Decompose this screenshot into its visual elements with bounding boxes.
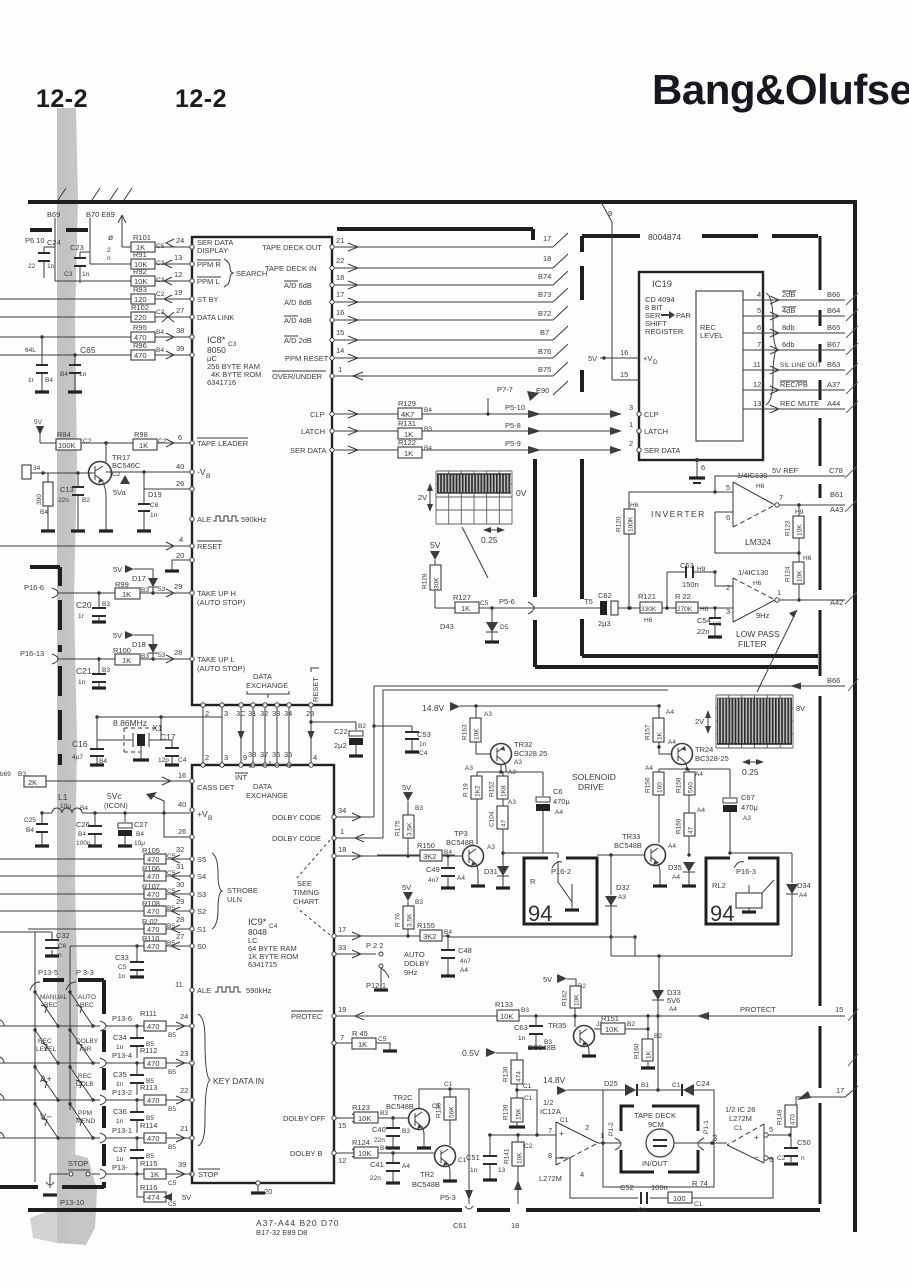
svg-text:H6: H6 [756,483,765,490]
svg-text:A4: A4 [799,892,807,899]
svg-text:330K: 330K [641,606,657,613]
output row 11 SIL LINE OUT to B63 [743,366,845,374]
svg-text:B4: B4 [156,347,164,354]
svg-text:1K: 1K [122,590,131,599]
down arrow pin9 wire [238,731,245,740]
svg-text:DATA: DATA [253,672,272,681]
svg-text:32: 32 [176,845,184,854]
svg-text:C23: C23 [70,243,84,252]
svg-text:5: 5 [757,306,761,315]
svg-text:40: 40 [178,800,186,809]
svg-text:C34: C34 [113,1033,127,1042]
svg-text:6341715: 6341715 [248,960,277,969]
pin 22 TAPE DECK IN [330,266,334,270]
svg-text:53: 53 [158,652,166,659]
svg-text:R141: R141 [504,1148,511,1164]
svg-text:EXCHANGE: EXCHANGE [246,681,288,690]
svg-text:C65: C65 [80,345,96,355]
wire TR32 collector tie [477,762,543,772]
wire opamp2 output to A42 [779,599,845,601]
svg-text:100: 100 [673,1194,686,1203]
svg-text:FILTER: FILTER [738,639,767,649]
capacitor C23 [79,252,81,283]
svg-text:B4: B4 [156,329,164,336]
svg-text:2: 2 [585,1123,589,1132]
svg-text:160: 160 [657,782,664,793]
wire pin38 [155,333,190,341]
transistor TR17 BC546C [89,462,112,485]
diode D31 [502,829,504,866]
svg-text:B3: B3 [102,601,110,608]
svg-text:P16-3: P16-3 [736,867,756,876]
svg-text:10K: 10K [517,1152,524,1164]
pin 26 [190,487,194,491]
svg-text:P5-10: P5-10 [505,403,525,412]
pin 28 S1 [190,927,194,931]
svg-text:B67: B67 [827,340,840,349]
wire dolby code pin1 riser [336,690,668,842]
capacitor C34 [135,1024,138,1027]
svg-text:3.5K: 3.5K [407,822,414,836]
keyboard module dashed border right [102,980,106,1188]
svg-text:A3: A3 [508,769,516,776]
svg-text:R133: R133 [495,1000,513,1009]
svg-text:SEARCH: SEARCH [236,269,267,278]
svg-text:TAKE UP L: TAKE UP L [197,655,235,664]
pin 39 [190,353,194,357]
wire B70 down [80,218,90,252]
ground bars [35,844,132,847]
svg-text:B17-32 E89 D8: B17-32 E89 D8 [256,1228,307,1237]
svg-text:6: 6 [757,323,761,332]
svg-text:C2: C2 [83,438,92,445]
relay RL2 box [706,858,778,924]
svg-text:C36: C36 [113,1107,127,1116]
svg-text:470: 470 [134,351,147,360]
strobe brace [212,853,222,929]
svg-text:470: 470 [147,1022,160,1031]
svg-text:A37-A44 B20 D70: A37-A44 B20 D70 [256,1218,340,1228]
svg-text:TR35: TR35 [548,1021,566,1030]
svg-text:A4: A4 [695,771,703,778]
svg-text:6db: 6db [782,340,795,349]
svg-text:220: 220 [134,313,147,322]
svg-text:C16: C16 [72,739,88,749]
wire R92 left to B69 [55,230,131,281]
wire D33 down to supply node [657,1016,659,1090]
svg-text:R136: R136 [503,1066,510,1082]
svg-text:1n: 1n [116,1118,124,1125]
svg-text:PROTECT: PROTECT [740,1005,776,1014]
wire crystal top rail [97,716,222,718]
svg-text:C1: C1 [672,1082,681,1089]
svg-text:1n: 1n [82,271,90,278]
diode D32 [609,853,612,856]
svg-text:EXCHANGE: EXCHANGE [246,791,288,800]
svg-text:8: 8 [548,1151,552,1160]
svg-text:C5: C5 [168,1201,177,1208]
svg-text:4n7: 4n7 [460,958,471,965]
wire DOLBY OFF row [336,1114,361,1122]
capacitor C26 100n [94,813,96,846]
svg-text:18: 18 [336,273,344,282]
svg-text:A4: A4 [555,809,563,816]
svg-text:150n: 150n [682,580,699,589]
svg-text:REGISTER: REGISTER [645,327,684,336]
svg-text:B3: B3 [415,899,423,906]
svg-text:6: 6 [726,513,730,522]
svg-text:23: 23 [306,709,314,718]
svg-text:P13-4: P13-4 [112,1051,132,1060]
svg-text:33: 33 [338,943,346,952]
edge hooks left [0,1020,4,1138]
svg-text:B: B [208,815,212,822]
svg-text:+: + [754,1132,759,1142]
bottom border [28,1208,820,1212]
svg-text:D43: D43 [440,622,454,631]
svg-text:P6 10: P6 10 [25,236,45,245]
wire E90 corner to CLP row [487,398,489,414]
capacitor C67 470u electrolytic [729,769,731,797]
svg-text:B2: B2 [82,497,90,504]
svg-text:B64: B64 [827,306,840,315]
wire pin24 [155,239,190,247]
svg-text:34: 34 [33,465,41,472]
svg-text:15K: 15K [516,1108,523,1120]
ground bars under caps [35,390,82,393]
opamps [616,466,846,692]
svg-text:R175: R175 [395,820,402,836]
svg-text:P13-: P13- [112,1163,128,1172]
svg-text:36: 36 [272,750,280,759]
svg-text:+V: +V [643,354,652,363]
IC9 body [192,765,334,1183]
svg-text:C2: C2 [524,1143,533,1150]
svg-text:10K: 10K [797,524,804,536]
transistor TR33 BC548B [645,845,666,866]
down arrow pin4 wire [308,731,315,740]
svg-text:38: 38 [176,326,184,335]
pin 40 -VB [190,470,194,474]
svg-text:C25: C25 [24,817,36,824]
row wire P13-4 [0,1062,100,1064]
pin 4 RESET [190,544,194,548]
svg-text:A4: A4 [668,739,676,746]
svg-text:C3: C3 [228,341,237,348]
svg-text:3: 3 [224,753,228,762]
svg-text:17: 17 [836,1086,844,1095]
matrix column B [69,951,71,1110]
svg-text:LM324: LM324 [745,537,771,547]
svg-text:3: 3 [712,1133,717,1144]
svg-text:1n: 1n [470,1167,478,1174]
svg-text:E90: E90 [536,386,549,395]
svg-text:A3: A3 [618,894,626,901]
svg-text:C2: C2 [156,291,165,298]
capacitor C13 22n [77,473,79,531]
tape deck thick box [621,1106,698,1172]
wire pin26 stub [144,488,190,490]
svg-text:INVERTER: INVERTER [651,509,706,519]
capacitor C50 [790,1135,792,1162]
motor symbol [646,1129,674,1157]
svg-text:8004874: 8004874 [648,232,681,242]
svg-text:D25: D25 [604,1079,618,1088]
svg-text:TP3: TP3 [454,829,468,838]
wire R98 to pin6 [157,439,190,447]
IC19 inner register box [696,291,743,441]
capacitor C19 1n [143,498,145,531]
svg-text:B2: B2 [627,1021,635,1028]
svg-text:P1-2: P1-2 [608,1122,615,1136]
svg-text:RESET: RESET [311,677,320,702]
5V REF row to C78 [715,476,845,492]
svg-text:P5-6: P5-6 [499,597,515,606]
svg-text:C1: C1 [523,1083,532,1090]
svg-text:390: 390 [36,494,43,505]
svg-text:−: − [559,1152,564,1162]
resistor 2K [24,776,46,787]
svg-text:C37: C37 [113,1145,127,1154]
svg-text:4: 4 [179,535,183,544]
svg-text:B1: B1 [641,1082,649,1089]
svg-text:C35: C35 [113,1070,127,1079]
svg-text:C49: C49 [426,865,440,874]
svg-text:A4: A4 [672,874,680,881]
svg-text:ALE: ALE [197,515,211,524]
5Va supply flag [120,475,130,484]
svg-text:R 19: R 19 [463,783,470,797]
svg-text:BC546C: BC546C [112,461,141,470]
pin 6 TAPE LEADER [190,441,194,445]
svg-text:1: 1 [629,420,633,429]
svg-text:C62: C62 [598,591,612,600]
svg-text:R115: R115 [140,1159,157,1168]
svg-text:R152: R152 [489,781,496,797]
svg-text:P7-7: P7-7 [497,385,513,394]
pin 12 DOLBY B [332,1151,336,1155]
svg-text:SER DATA: SER DATA [290,446,326,455]
resistor R149 470 vertical [785,1105,797,1127]
svg-text:C22: C22 [334,727,348,736]
pin 13 PPM R [190,262,194,266]
pin 27 DATA LINK [190,315,194,319]
svg-text:35: 35 [284,750,292,759]
svg-text:C24: C24 [696,1079,710,1088]
svg-text:R114: R114 [140,1121,157,1130]
svg-text:R: R [530,877,536,886]
svg-text:D: D [653,359,658,366]
ground bars row [41,529,151,532]
connector arrows into P13 [100,1021,106,1179]
svg-text:A3: A3 [487,844,495,851]
svg-text:AUTO: AUTO [404,950,425,959]
svg-text:−: − [754,1152,759,1162]
5V flag at R116 [163,1193,172,1201]
0.25 time marker [483,527,505,533]
pin 7 [332,1041,336,1045]
svg-text:STROBE: STROBE [227,886,258,895]
resistor R160 1K vertical [647,1016,649,1039]
svg-text:B3: B3 [141,653,149,660]
header [36,66,909,113]
svg-text:470: 470 [147,907,160,916]
topleft [0,210,190,392]
svg-text:C78: C78 [829,466,843,475]
svg-text:B5: B5 [168,1069,176,1076]
wire opamp1 output to A43 [779,504,845,506]
svg-text:470μ: 470μ [553,797,570,806]
pin 16 CASS DET [190,779,194,783]
svg-text:P13-1: P13-1 [112,1126,132,1135]
relay RL2 coil [736,893,762,908]
svg-text:1/4IC130: 1/4IC130 [738,568,768,577]
svg-text:94: 94 [528,901,552,926]
svg-text:R124: R124 [785,566,792,582]
svg-text:R96: R96 [133,341,147,350]
wire R136 node to audio rail [517,1090,537,1135]
svg-text:R84: R84 [57,430,71,439]
svg-text:13: 13 [174,253,182,262]
output row 7 6db to B67 [743,346,845,354]
svg-text:7: 7 [757,340,761,349]
svg-text:P 2 2: P 2 2 [366,941,383,950]
svg-text:DRIVE: DRIVE [578,782,604,792]
pin 39 STOP [190,1172,194,1176]
svg-text:S5: S5 [197,855,206,864]
pin 40 +VB [190,808,194,812]
svg-text:P16-6: P16-6 [24,583,44,592]
ground P13-10 [46,1174,54,1188]
svg-text:BC548B: BC548B [412,1180,440,1189]
svg-text:5V: 5V [34,419,43,426]
svg-text:C2: C2 [158,438,167,445]
svg-text:C32: C32 [56,931,70,940]
svg-text:37: 37 [260,750,268,759]
lowermid [336,783,845,1135]
svg-text:H9: H9 [795,509,804,516]
svg-text:P1-1: P1-1 [703,1120,710,1134]
svg-text:D18: D18 [132,640,146,649]
pin 16 A/D 4dB [330,318,334,322]
svg-text:5Vc: 5Vc [107,791,122,801]
svg-text:H6: H6 [803,555,812,562]
diode D33 zener [652,990,664,1000]
svg-text:0.25: 0.25 [742,767,759,777]
svg-text:C61: C61 [453,1221,467,1230]
svg-text:B75: B75 [538,365,551,374]
svg-text:S1: S1 [197,925,206,934]
svg-text:P13-10: P13-10 [60,1198,84,1207]
svg-text:20: 20 [176,551,184,560]
svg-text:(AUTO STOP): (AUTO STOP) [197,664,246,673]
svg-text:94: 94 [710,901,734,926]
svg-text:3.5K: 3.5K [407,913,414,927]
module 8004874 dashed top [582,234,818,238]
oscillogram 2 trace [717,698,792,744]
crystal center ground [140,746,142,760]
svg-text:5: 5 [726,483,730,492]
svg-text:C6: C6 [150,502,159,509]
svg-text:1: 1 [338,365,342,374]
svg-text:R128: R128 [422,573,429,589]
svg-text:17: 17 [338,925,346,934]
svg-text:B61: B61 [830,490,843,499]
svg-text:9Hz: 9Hz [756,611,770,620]
wire TR2C collector rail [419,1089,469,1108]
wire R91 left to B70 [90,252,131,264]
svg-text:C5: C5 [480,600,489,607]
svg-text:4μ7: 4μ7 [72,754,83,761]
border crossing slants right edge [845,293,858,1066]
svg-text:L272M: L272M [539,1174,562,1183]
crystal X1 symbol [97,717,161,749]
svg-text:TR2C: TR2C [393,1093,413,1102]
svg-text:16: 16 [178,771,186,780]
svg-text:(ICON): (ICON) [104,801,128,810]
svg-text:SEE: SEE [297,879,312,888]
svg-text:18: 18 [543,254,551,263]
capacitor C35 [135,1061,138,1064]
svg-text:1K: 1K [646,1050,653,1059]
wire pin12 [155,277,190,285]
svg-text:13: 13 [498,1167,506,1174]
svg-text:OVER/UNDER: OVER/UNDER [272,372,323,381]
oscillogram 1 grid [436,471,512,524]
svg-text:R151: R151 [601,1014,619,1023]
ic8 right rows [335,229,610,458]
left of IC9 [0,771,190,980]
svg-text:5V REF: 5V REF [772,466,799,475]
svg-text:12: 12 [338,1156,346,1165]
svg-text:C104: C104 [489,811,496,827]
svg-text:5V: 5V [588,354,597,363]
svg-text:B3: B3 [141,587,149,594]
svg-text:IC12A: IC12A [540,1107,561,1116]
wire takeup L row [58,655,190,663]
svg-text:LATCH: LATCH [644,427,668,436]
motor module thin box [603,1090,714,1187]
svg-text:C52: C52 [620,1183,634,1192]
svg-text:22n: 22n [374,1137,385,1144]
svg-text:BC548B: BC548B [528,1043,556,1052]
svg-text:CHART: CHART [293,897,319,906]
pin 11 ALE [190,988,194,992]
svg-text:R 76: R 76 [395,913,402,927]
svg-text:SIL LINE OUT: SIL LINE OUT [780,362,821,369]
relay RL1 box [524,858,597,924]
svg-text:64L: 64L [25,347,36,354]
svg-text:R156: R156 [645,777,652,793]
svg-text:ST BY: ST BY [197,295,219,304]
wire motor to IC26 [674,1142,727,1144]
svg-text:AUTO: AUTO [78,994,96,1001]
svg-text:1/4IC130: 1/4IC130 [737,471,767,480]
svg-text:C51: C51 [466,1153,480,1162]
svg-text:B4: B4 [40,509,48,516]
svg-text:C50: C50 [797,1138,811,1147]
pin 18 A/D 6dB [330,283,334,287]
svg-text:32: 32 [260,709,268,718]
svg-text:470: 470 [147,872,160,881]
svg-text:P16-2: P16-2 [551,867,571,876]
svg-text:B4: B4 [78,831,86,838]
hatch ticks above top border [58,188,132,200]
svg-text:34: 34 [338,806,346,815]
svg-text:47: 47 [688,826,695,834]
borders [28,188,858,1237]
inner brace [766,293,777,405]
